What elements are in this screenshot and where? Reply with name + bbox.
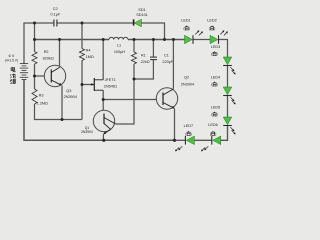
svg-text:LED2: LED2 bbox=[207, 19, 217, 23]
resistor R4 1M bbox=[80, 49, 85, 61]
battery B1 6V bbox=[20, 64, 28, 80]
池 bbox=[10, 74, 15, 78]
wire base node to Q2 base bbox=[103, 99, 163, 101]
svg-text:LED6: LED6 bbox=[208, 123, 218, 127]
wire LED3 to LED4 bbox=[227, 66, 229, 88]
svg-text:Q2: Q2 bbox=[184, 76, 189, 80]
node JFET drain on rail bbox=[102, 38, 105, 41]
wire main rail from L1 to LED1 bbox=[128, 39, 185, 41]
wire diode anode to corner down to rail bbox=[142, 23, 165, 40]
wire Q2 collector to rail bbox=[172, 40, 174, 89]
svg-text:SD101: SD101 bbox=[136, 13, 148, 17]
battery chinese label 电池组 bbox=[10, 67, 15, 84]
JFET1 2N5461 bbox=[91, 78, 104, 91]
wire JFET drain to rail bbox=[102, 40, 104, 80]
wire Q3 collector to rail bbox=[59, 40, 61, 68]
resistor R3 1.2M bbox=[32, 89, 37, 104]
node Q1 emitter on ground rail bbox=[102, 139, 105, 142]
wire R1 bottom lead to junction bbox=[133, 64, 135, 79]
LED4 bbox=[223, 87, 232, 96]
capacitor C2 bbox=[54, 20, 57, 27]
wire R1 junction down to Q1 collector bbox=[116, 79, 134, 124]
wire JFET source to base node bbox=[102, 90, 104, 99]
svg-text:2N3904: 2N3904 bbox=[81, 130, 93, 134]
wire LED7 cathode to ground rail junction bbox=[175, 139, 186, 141]
wire Q2 emitter to ground rail bbox=[174, 109, 176, 141]
wire R2 bottom to base node bbox=[34, 64, 36, 76]
wire R3 top lead bbox=[34, 76, 36, 89]
wire R1 top lead bbox=[133, 40, 135, 53]
svg-text:0.1µF: 0.1µF bbox=[51, 12, 61, 16]
svg-text:6 V: 6 V bbox=[8, 53, 14, 58]
wire JFET gate lead bbox=[82, 84, 94, 86]
组 bbox=[10, 79, 15, 83]
wire R4 bottom to gate node and down bbox=[81, 61, 83, 120]
wire base node down to Q1 bbox=[102, 100, 104, 115]
wire R4 top lead from top line bbox=[81, 23, 83, 49]
node JFET source / bases bbox=[102, 98, 105, 101]
svg-text:2N3904: 2N3904 bbox=[181, 82, 194, 86]
resistor R1 22k bbox=[132, 52, 137, 64]
svg-text:1.2MΩ: 1.2MΩ bbox=[37, 102, 48, 106]
wire LED6 to LED7 bbox=[194, 139, 211, 141]
电 bbox=[11, 67, 15, 72]
wire LED4 to LED5 bbox=[227, 96, 229, 118]
wire R3 bottom L-path to node bbox=[35, 104, 83, 120]
wire LED2 to right column corner bbox=[219, 40, 228, 58]
node C1 top on rail bbox=[152, 38, 155, 41]
svg-text:Q3: Q3 bbox=[66, 89, 71, 93]
transistor Q3 2N3904 bbox=[44, 65, 65, 86]
LED6 bbox=[212, 136, 221, 145]
wire Q3 emitter down to node bbox=[61, 86, 63, 120]
node top-left jumper top bbox=[33, 22, 36, 25]
wire bottom ground rail bbox=[24, 80, 175, 141]
node Q3 collector on rail bbox=[58, 38, 61, 41]
wire top line from C2 to diode SD1 bbox=[57, 22, 133, 24]
LED7 bbox=[185, 136, 194, 145]
svg-text:820kΩ: 820kΩ bbox=[43, 56, 54, 60]
LED2 bbox=[210, 35, 219, 44]
svg-text:C2: C2 bbox=[53, 7, 58, 11]
svg-text:LED3: LED3 bbox=[211, 45, 221, 49]
svg-text:JFET1: JFET1 bbox=[105, 78, 116, 82]
diode SD1 bbox=[134, 19, 142, 27]
svg-text:220pF: 220pF bbox=[162, 60, 173, 64]
svg-text:22kΩ: 22kΩ bbox=[141, 60, 150, 64]
svg-text:(4×1.5 V): (4×1.5 V) bbox=[5, 59, 18, 63]
svg-text:C1: C1 bbox=[164, 54, 169, 58]
LED1 bbox=[185, 35, 194, 44]
wire main rail left section to L1 bbox=[35, 39, 110, 41]
node Q3 base divider bbox=[33, 75, 36, 78]
svg-text:R1: R1 bbox=[141, 54, 146, 58]
wire LED1 to LED2 bbox=[193, 39, 210, 41]
junction dots bbox=[33, 22, 176, 142]
svg-text:2N5461: 2N5461 bbox=[104, 85, 117, 89]
svg-text:100µH: 100µH bbox=[114, 50, 126, 54]
wire jumper from top line to main rail bbox=[34, 23, 36, 40]
node diode corner on rail bbox=[163, 38, 166, 41]
node Q2 collector on rail bbox=[172, 38, 175, 41]
svg-text:1MΩ: 1MΩ bbox=[86, 55, 94, 59]
wire Q3 base lead bbox=[35, 75, 52, 77]
capacitor C1 220pF bbox=[150, 57, 157, 60]
transistor Q2 2N3904 bbox=[156, 88, 177, 109]
resistor R2 820k bbox=[32, 52, 37, 65]
wire C1 top lead bbox=[152, 40, 154, 58]
node R4 top bbox=[81, 22, 84, 25]
svg-text:SD1: SD1 bbox=[138, 8, 145, 12]
node Q3 emitter join bbox=[61, 118, 64, 121]
node Q2 emitter / LED7 on ground rail bbox=[173, 139, 176, 142]
svg-text:LED5: LED5 bbox=[211, 105, 221, 109]
node R1 top on rail bbox=[133, 38, 136, 41]
svg-text:LED7: LED7 bbox=[184, 124, 194, 128]
svg-text:2N3904: 2N3904 bbox=[64, 95, 77, 99]
node R1 bottom junction bbox=[133, 78, 136, 81]
wire Q1 emitter to ground rail bbox=[102, 134, 104, 140]
svg-text:R4: R4 bbox=[86, 48, 91, 52]
wire LED5 to bottom corner and LED6 bbox=[221, 126, 228, 141]
svg-text:L1: L1 bbox=[117, 43, 121, 47]
LED5 bbox=[223, 117, 232, 126]
svg-text:LED1: LED1 bbox=[181, 19, 191, 23]
svg-text:LED4: LED4 bbox=[211, 75, 221, 79]
wire junction to C1 bottom bbox=[134, 60, 153, 79]
wire R2 top lead bbox=[34, 40, 36, 52]
node JFET gate bbox=[81, 83, 84, 86]
transistor Q1 2N3904 (rotated) bbox=[93, 110, 115, 134]
svg-text:R2: R2 bbox=[44, 50, 49, 54]
LED3 bbox=[223, 57, 232, 66]
wire battery positive up and top line to C2 bbox=[24, 23, 54, 64]
svg-text:R3: R3 bbox=[39, 94, 44, 98]
inductor L1 100uH bbox=[109, 37, 128, 39]
node jumper bottom on rail bbox=[33, 38, 36, 41]
